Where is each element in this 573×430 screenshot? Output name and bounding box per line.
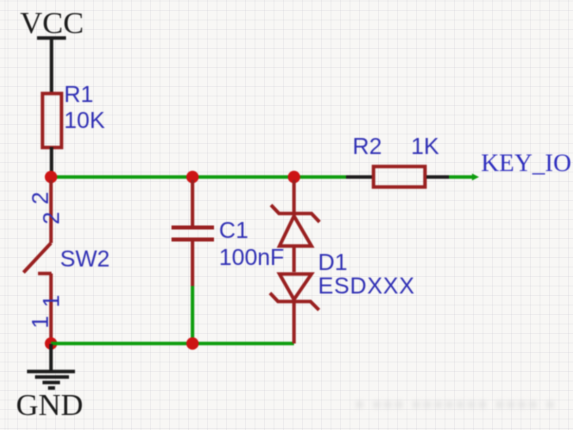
resistor R2 bbox=[346, 133, 449, 187]
resistor R1 bbox=[43, 81, 106, 148]
watermark bbox=[355, 396, 570, 414]
node A junction bbox=[45, 171, 57, 183]
svg-text:100nF: 100nF bbox=[219, 244, 284, 270]
svg-text:ESDXXX: ESDXXX bbox=[318, 273, 415, 299]
wire node D to ground bbox=[49, 344, 53, 370]
node D junction (bottom left) bbox=[45, 337, 57, 349]
svg-text:1: 1 bbox=[27, 316, 53, 329]
svg-text:R2: R2 bbox=[353, 133, 382, 159]
power symbol VCC bbox=[20, 5, 84, 40]
svg-text:C1: C1 bbox=[219, 217, 248, 243]
svg-text:D1: D1 bbox=[318, 249, 347, 275]
capacitor C1 bbox=[172, 180, 285, 286]
svg-text:2: 2 bbox=[38, 212, 64, 225]
svg-text:10K: 10K bbox=[64, 107, 106, 133]
wire bottom net bbox=[51, 342, 294, 346]
svg-text:SW2: SW2 bbox=[60, 246, 110, 272]
svg-text:1: 1 bbox=[38, 295, 64, 308]
wire C1 to bottom net bbox=[191, 286, 195, 344]
ground bbox=[16, 372, 83, 423]
wire top net (node A to R2) bbox=[51, 175, 346, 179]
switch SW2 bbox=[24, 180, 110, 344]
svg-text:GND: GND bbox=[16, 387, 83, 422]
svg-text:2: 2 bbox=[27, 192, 53, 205]
node B junction (C1 top) bbox=[186, 171, 198, 183]
wire R1 to node A bbox=[50, 147, 54, 177]
wire R2 to KEY_IO bbox=[449, 174, 479, 181]
wire VCC to R1 bbox=[50, 38, 54, 92]
svg-text:VCC: VCC bbox=[20, 5, 84, 40]
svg-text:R1: R1 bbox=[64, 81, 93, 107]
node E junction (C1 bottom) bbox=[186, 337, 198, 349]
node C junction (D1 top) bbox=[288, 171, 300, 183]
diode D1 TVS bbox=[270, 180, 415, 344]
svg-text:KEY_IO: KEY_IO bbox=[481, 150, 571, 177]
svg-text:1K: 1K bbox=[411, 133, 440, 159]
